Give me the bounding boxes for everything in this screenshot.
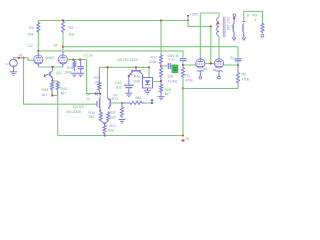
svg-text:R16: R16 (67, 66, 73, 70)
junction FB node (182, 87, 184, 89)
svg-text:IN: IN (19, 53, 23, 57)
wire C5 top lead (80, 60, 82, 67)
svg-text:R24: R24 (136, 100, 142, 104)
svg-text:6N6S: 6N6S (46, 56, 56, 60)
junction IN b (22, 57, 24, 59)
svg-text:120k: 120k (149, 60, 157, 64)
wire L1 bottom lead (233, 32, 235, 35)
ground V1 (10, 72, 17, 75)
wire Q5 base bus (99, 66, 149, 68)
resistor R19 (160, 81, 163, 96)
label R18 value (168, 75, 174, 79)
svg-text:30k: 30k (28, 33, 34, 37)
wire plate V1a rail y50 (38, 50, 183, 52)
wire Q4 collector (99, 94, 101, 99)
ground L1 (232, 34, 236, 40)
label net 24 (185, 137, 189, 141)
svg-text:10k: 10k (94, 81, 100, 85)
wire Re1 to tail (101, 121, 105, 123)
svg-text:R21: R21 (110, 124, 117, 128)
resistor R3 load (261, 22, 264, 33)
svg-text:24: 24 (185, 137, 189, 141)
capacitor C6 (235, 59, 242, 61)
wire R17 feed (160, 21, 162, 55)
junction R4/plate V1a node (37, 50, 39, 52)
svg-text:R40: R40 (134, 75, 140, 79)
svg-text:330: 330 (110, 116, 116, 120)
wire cathode V2a leg (37, 63, 39, 67)
junction R17 top on rail (160, 19, 162, 21)
svg-text:62k: 62k (108, 129, 114, 133)
transistor Q4 (99, 98, 101, 112)
svg-text:R4: R4 (29, 26, 34, 30)
junction grid cap (79, 59, 81, 61)
junction R44 bottom (51, 94, 53, 96)
cathode V3a terminal (197, 71, 204, 79)
label R3 ref (69, 26, 74, 30)
label R21 (110, 124, 117, 128)
junction cathode bus / Q1 (52, 66, 54, 68)
label R22 value (94, 81, 100, 85)
svg-text:34: 34 (53, 44, 57, 48)
label +300 (190, 12, 199, 16)
wire R4 bottom to node (37, 33, 39, 51)
label R24 (136, 100, 142, 104)
junction R17/R18 (160, 65, 162, 67)
label R21 value (108, 129, 114, 133)
tube V2a 6N6S input left (34, 54, 43, 64)
wire cathode bus (38, 66, 63, 68)
label R44 value (42, 93, 48, 97)
tube V2b 6N6S input right (58, 54, 67, 64)
polarity mark OPT (217, 23, 219, 25)
diode Q1 base mark (44, 74, 47, 77)
junction grid V3b (237, 64, 239, 66)
arrow grid drive (93, 92, 99, 96)
resistor R44 (51, 81, 54, 96)
wire cathode V2b leg (62, 63, 64, 67)
inductor secondary L1 (233, 24, 234, 32)
wire emitter bridge bottom (52, 96, 58, 136)
ground C5 (77, 73, 84, 76)
label 6N6S (46, 56, 56, 60)
label V3b (213, 68, 217, 72)
svg-text:100k: 100k (133, 80, 141, 84)
label net IN (19, 53, 23, 57)
junction Q5 base (135, 66, 137, 68)
wire B+ jog (188, 20, 211, 26)
label R19 value (165, 92, 171, 96)
wire R24 out (145, 102, 152, 104)
label C44 value (169, 57, 176, 61)
wire TL431 top (148, 67, 150, 77)
label R3 value (69, 33, 75, 37)
label R22 (94, 76, 101, 80)
svg-text:R2: R2 (242, 73, 247, 77)
terminal secondary 1 (233, 14, 236, 17)
wire R3 bottom to node (62, 33, 64, 50)
label V1 (6, 63, 11, 67)
label R3 load value (254, 18, 256, 22)
label 2SC2240 (66, 110, 81, 114)
label R37 value (110, 116, 116, 120)
label C44 (168, 54, 180, 58)
label C43 value (116, 86, 122, 90)
wire feedback run (183, 88, 238, 90)
ground R16 (71, 73, 78, 76)
label Q4 Q3 (73, 105, 84, 109)
resistor R4 (37, 22, 40, 34)
inductor OPT primary (217, 17, 219, 36)
label R4 ref (29, 26, 34, 30)
svg-text:0.1u: 0.1u (169, 57, 176, 61)
junction tail (103, 122, 105, 124)
junction rail end 24 (182, 134, 184, 136)
resistor R37 emitter (107, 112, 110, 122)
svg-text:20k: 20k (168, 75, 174, 79)
junction Q5 collector / C43 (128, 75, 130, 77)
tube V3a output left (196, 58, 205, 68)
label R16 value (65, 71, 73, 75)
svg-text:3u3: 3u3 (116, 86, 122, 90)
wire C4A drop (182, 51, 184, 58)
label R40 value (133, 80, 141, 84)
svg-text:4k7: 4k7 (60, 92, 66, 96)
junction B+ flag (187, 15, 189, 17)
ground C43 (125, 93, 132, 96)
resistor R34 emitter (99, 112, 102, 122)
svg-text:R22: R22 (94, 76, 101, 80)
svg-text:R3: R3 (69, 26, 74, 30)
svg-text:30k: 30k (69, 33, 75, 37)
resistor R24 (122, 102, 145, 105)
transistor Q3 (108, 98, 111, 109)
resistor R43 (56, 81, 59, 96)
wire B+ top rail (38, 20, 188, 22)
svg-text:C4: C4 (86, 93, 91, 97)
label R34 value (89, 115, 95, 119)
svg-text:C43: C43 (115, 81, 122, 85)
ground TL431 (144, 91, 151, 94)
net flag 24 (182, 139, 185, 142)
capacitor C4A (180, 59, 187, 61)
junction servo drive node (99, 93, 101, 95)
resistor R17 (160, 54, 163, 66)
wire R4 top lead (37, 21, 39, 23)
label C43 (115, 81, 122, 85)
wire R2 bottom to FB (237, 85, 239, 89)
label R16 (67, 66, 73, 70)
label R23 (112, 97, 118, 101)
label TL431 (168, 80, 178, 84)
wire Re2 to tail (105, 121, 108, 123)
svg-text:Q4 Q3: Q4 Q3 (73, 105, 84, 109)
svg-text:TL431: TL431 (168, 80, 178, 84)
transistor Q1 (48, 71, 53, 78)
wire V1 plus to IN (14, 58, 29, 60)
svg-text:C2: C2 (28, 44, 33, 48)
label C3 3n (83, 54, 93, 58)
cathode V3b terminal (216, 71, 223, 79)
resistor R23 (121, 103, 124, 118)
label C2 (28, 44, 33, 48)
svg-text:1u: 1u (86, 97, 90, 101)
label C4 (86, 93, 91, 97)
wire L1 top lead (233, 19, 235, 24)
capacitor C5 (78, 67, 84, 69)
junction Q5 base riser (106, 66, 108, 68)
label C4 value (86, 97, 90, 101)
label R43 value (60, 92, 66, 96)
label R4 value (28, 33, 34, 37)
wire C6 drop (237, 47, 239, 58)
label R37 (110, 111, 116, 115)
svg-text:R17: R17 (151, 56, 158, 60)
junction IN a (18, 57, 20, 59)
label V3a (204, 67, 208, 71)
capacitor C43 (124, 85, 134, 93)
label R12 (186, 74, 190, 78)
svg-text:4k7: 4k7 (42, 93, 48, 97)
wire screen riser (210, 26, 212, 63)
svg-text:8: 8 (247, 14, 249, 18)
junction grid V3a (182, 64, 184, 66)
svg-text:R43: R43 (60, 87, 67, 91)
wire L2 bottom lead (243, 32, 245, 35)
wire C5 bottom lead (80, 69, 82, 73)
label b4 (114, 94, 118, 98)
label 8ohm (247, 14, 249, 18)
wire Q3 collector (108, 98, 110, 100)
svg-text:R1: R1 (186, 74, 190, 78)
wire B+ flag stub (187, 16, 189, 20)
terminal L2 top (242, 21, 245, 23)
wire Q5 emitter (142, 75, 144, 79)
wire grid V1b to rc (67, 59, 86, 61)
wire Q5 collector link (128, 76, 130, 84)
svg-text:+300: +300 (190, 12, 199, 16)
regulator U1 TL431 (143, 78, 153, 89)
resistor R2 grid (237, 65, 240, 85)
label Q5 2SC3116 (117, 58, 138, 62)
label R3 load (253, 13, 258, 17)
wire Q3 base (111, 102, 123, 104)
junction R3/plate V1b node (62, 46, 64, 48)
svg-text:R44: R44 (42, 88, 49, 92)
junction screen riser (210, 25, 212, 27)
wire grid V3a (183, 64, 196, 66)
svg-text:V1: V1 (6, 63, 11, 67)
terminal load (261, 34, 264, 37)
junction R18/R19 ref (160, 80, 162, 82)
capacitor C18 (168, 63, 170, 69)
wire emitter bridge top (52, 80, 58, 82)
junction Q1 emitter (51, 80, 53, 82)
wire C6 bottom (237, 62, 239, 65)
wire TL431 ref (153, 81, 162, 83)
wire TL431 bottom (147, 88, 149, 91)
svg-text:C3 3n: C3 3n (83, 54, 93, 58)
label Q1 (56, 71, 61, 75)
label R40 (134, 75, 140, 79)
svg-text:R37: R37 (110, 111, 116, 115)
label R17 (151, 56, 158, 60)
junction B+ corner (187, 19, 189, 21)
svg-text:a4: a4 (204, 67, 208, 71)
label R43 (60, 87, 67, 91)
wire Q5 base riser (107, 67, 109, 98)
junction R3 top on rail (62, 19, 64, 21)
svg-text:Q1: Q1 (56, 71, 61, 75)
svg-text:R23: R23 (112, 97, 118, 101)
ground R23 (119, 120, 126, 123)
svg-text:Z1: Z1 (230, 56, 234, 60)
label R12 value (186, 79, 194, 83)
wire C4A bottom (182, 62, 184, 65)
wire grid V1b feed (87, 60, 93, 94)
wire V1 bottom (13, 67, 15, 71)
svg-text:OUT-3k5: OUT-3k5 (226, 17, 230, 30)
ground R19 (158, 96, 165, 99)
core OPT (223, 17, 225, 38)
label OPT (226, 17, 230, 30)
wire C18 branch (161, 65, 167, 67)
wire plate V1b lead (62, 51, 64, 55)
source V1 input (10, 59, 18, 67)
svg-text:470k: 470k (186, 79, 194, 83)
inductor secondary L2 (243, 24, 244, 32)
svg-text:470k: 470k (242, 78, 250, 82)
resistor R3 (62, 21, 65, 34)
resistor R22 (98, 67, 101, 90)
label net 34 (53, 44, 57, 48)
capacitor C4 (96, 101, 98, 107)
wire OPT top link (200, 13, 219, 17)
transistor Q5 (129, 67, 142, 75)
wire load top (244, 11, 263, 22)
wire plate V1a lead (37, 51, 39, 55)
wire IN branch down (24, 58, 97, 104)
wire plate V1b rail y46 (63, 46, 238, 48)
wire plate V3a riser (199, 13, 201, 58)
svg-text:R3: R3 (253, 13, 258, 17)
wire R12 bottom (182, 78, 184, 89)
label OPT sec (231, 25, 235, 30)
svg-text:300k: 300k (65, 71, 73, 75)
capacitor E1 electrolytic (172, 65, 178, 73)
label R24 value (136, 96, 142, 100)
label R44 (42, 88, 49, 92)
wire C18 to E1 (171, 65, 173, 67)
wire grid V3b (223, 64, 238, 66)
tube V3b output right (214, 58, 223, 68)
resistor R21 tail (103, 124, 106, 136)
ground L2 (242, 34, 246, 40)
junction sec1 top (233, 17, 235, 19)
label R17 value (149, 60, 157, 64)
wire bottom rail 24 (58, 135, 183, 137)
wire R22 bottom (98, 91, 101, 94)
net flag bias (151, 99, 154, 103)
junction R21 bottom (103, 134, 105, 136)
label R2 value (242, 78, 250, 82)
svg-text:4k7: 4k7 (165, 92, 171, 96)
svg-text:4: 4 (254, 18, 256, 22)
label net fb (230, 56, 234, 60)
svg-text:330: 330 (89, 115, 95, 119)
wire Q1 emitter (52, 78, 54, 81)
junction grid leak (72, 59, 74, 61)
junction Q3 base node (121, 102, 123, 104)
svg-text:Q5 2SC3116: Q5 2SC3116 (117, 58, 138, 62)
resistor R12 grid (182, 65, 185, 78)
junction R24 out (151, 102, 153, 104)
junction TL431 top (148, 66, 150, 68)
label R2 (242, 73, 247, 77)
wire IN to grid V1a (28, 58, 34, 60)
svg-text:2SC2240: 2SC2240 (66, 110, 81, 114)
wire OPT to plate V3b (218, 36, 220, 58)
wire Q1 collector (52, 67, 54, 71)
junction screen node (210, 62, 212, 64)
resistor R16 grid leak (73, 60, 76, 72)
wire FB node down (182, 89, 184, 136)
wire screen link (205, 63, 214, 65)
resistor R18 (160, 66, 163, 81)
label R19 (165, 88, 171, 92)
label R34 (89, 111, 95, 115)
